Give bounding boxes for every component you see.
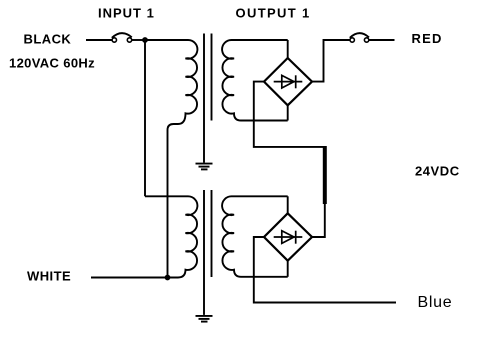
junction node BLACK/primaries (142, 37, 148, 43)
transformer T2 core (203, 190, 205, 315)
transformer T2 primary winding (145, 196, 197, 277)
wire WHITE lead (91, 277, 168, 279)
svg-text:INPUT 1: INPUT 1 (98, 6, 155, 21)
bridge rectifier BR2 (264, 213, 312, 260)
diode BR1 (274, 75, 303, 88)
svg-text:Blue: Blue (418, 294, 453, 311)
wire BR2 negative to Blue (254, 237, 396, 303)
bridge rectifier BR1 (264, 58, 312, 105)
circuit breaker CB2 (output) (350, 33, 369, 42)
junction node WHITE/primaries (165, 275, 171, 281)
circuit breaker CB1 (input) (112, 33, 132, 42)
wire series link thick segment (323, 146, 327, 204)
wire BR1 positive to CB2 (312, 40, 350, 82)
transformer T1 secondary winding (222, 40, 288, 121)
transformer T2 secondary winding (222, 196, 288, 277)
svg-text:120VAC 60Hz: 120VAC 60Hz (9, 55, 95, 70)
svg-text:BLACK: BLACK (24, 32, 72, 47)
ground T2 core (196, 316, 213, 322)
wire T1 secondary top to BR1 (287, 40, 289, 58)
wire T1 secondary bottom to BR1 (287, 105, 289, 120)
svg-text:RED: RED (412, 31, 443, 46)
wire series link BR1 negative to BR2 positive (254, 82, 325, 237)
wire BLACK lead (86, 39, 112, 41)
wire parallel primary feed (BLACK down to T2) (144, 40, 146, 196)
svg-text:WHITE: WHITE (27, 269, 71, 284)
svg-text:24VDC: 24VDC (415, 164, 460, 179)
diode BR2 (274, 231, 303, 244)
wire T2 secondary bottom to BR2 (287, 261, 289, 277)
svg-text:OUTPUT 1: OUTPUT 1 (236, 6, 311, 21)
wire CB2 to RED (369, 39, 395, 41)
wire CB1 to T1 primary (132, 39, 146, 41)
wire T2 secondary top to BR2 (287, 196, 289, 213)
transformer T1 core (203, 34, 205, 163)
transformer T1 primary winding (145, 40, 197, 278)
ground T1 core (196, 164, 213, 170)
